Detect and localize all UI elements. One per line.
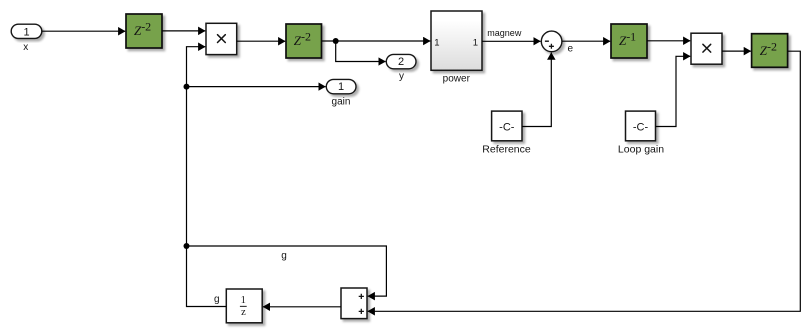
svg-text:Reference: Reference (482, 144, 531, 156)
delay block Z^-2 #1 (126, 14, 162, 48)
sum block S1 (circle) (541, 31, 562, 52)
wire product1 to delay2 (237, 40, 286, 42)
svg-text:power: power (443, 73, 471, 84)
subsystem power (431, 11, 482, 70)
svg-text:2: 2 (398, 56, 404, 68)
delay block Z^-1 (611, 24, 647, 58)
svg-text:gain: gain (332, 96, 351, 107)
wire delay3 around right edge to sum2 lower input (368, 51, 801, 311)
junction dot lower (g split to sum2) (184, 243, 190, 249)
svg-text:1: 1 (434, 37, 439, 48)
junction dot after delay2 (333, 38, 339, 44)
delay block Z^-2 #2 (286, 24, 322, 58)
svg-text:1: 1 (241, 295, 246, 306)
svg-text:Loop gain: Loop gain (618, 144, 664, 156)
svg-text:y: y (399, 71, 404, 82)
svg-text:e: e (568, 44, 574, 55)
svg-text:g: g (214, 294, 220, 305)
wire 1/z output up the left feedback rail to product1 lower input (187, 47, 227, 307)
constant Reference (492, 111, 522, 141)
delay block Z^-2 #3 (752, 34, 788, 68)
product block P2 (691, 33, 722, 64)
outport Out1 "1" (gain) (326, 79, 356, 93)
wire product2 to delay3 (722, 50, 751, 52)
svg-text:x: x (23, 42, 28, 53)
constant Loop gain (626, 111, 656, 141)
wire branch to outport y (336, 41, 386, 62)
sum block S2 (square, ++) (341, 288, 367, 319)
svg-text:magnew: magnew (487, 28, 522, 38)
svg-text:1: 1 (473, 37, 478, 48)
wire Reference to sum1 bottom (522, 53, 551, 127)
wire g loop from junction to sum2 upper input (187, 246, 387, 296)
unit delay 1/z (226, 289, 262, 323)
svg-text:1: 1 (338, 81, 344, 93)
svg-text:-C-: -C- (499, 121, 515, 133)
wire In1 to delay1 (42, 30, 126, 32)
svg-text:-2: -2 (141, 19, 151, 33)
wire junction to outport gain (187, 86, 326, 88)
inport In1 "1" (x) (11, 24, 42, 38)
wire delay1 to product1 (162, 30, 205, 32)
svg-text:-2: -2 (301, 29, 311, 43)
junction dot upper (g split to gain outport) (184, 84, 190, 90)
svg-text:-1: -1 (626, 29, 636, 43)
wire delayZ1 to product2 (647, 40, 690, 42)
svg-text:1: 1 (23, 26, 29, 38)
wire sum1 to delayZ1 (562, 40, 610, 42)
wire delay2 to power (322, 40, 431, 42)
product block P1 (206, 23, 237, 54)
svg-text:-2: -2 (767, 39, 777, 53)
svg-text:-C-: -C- (633, 121, 649, 133)
wire sum2 output to unit delay 1/z (263, 306, 341, 308)
svg-text:z: z (241, 307, 246, 318)
outport Out2 "2" (y) (386, 54, 416, 68)
svg-text:g: g (281, 251, 287, 262)
wire Loop gain to product2 lower input (656, 56, 691, 126)
wire power to sum1 (482, 40, 541, 42)
